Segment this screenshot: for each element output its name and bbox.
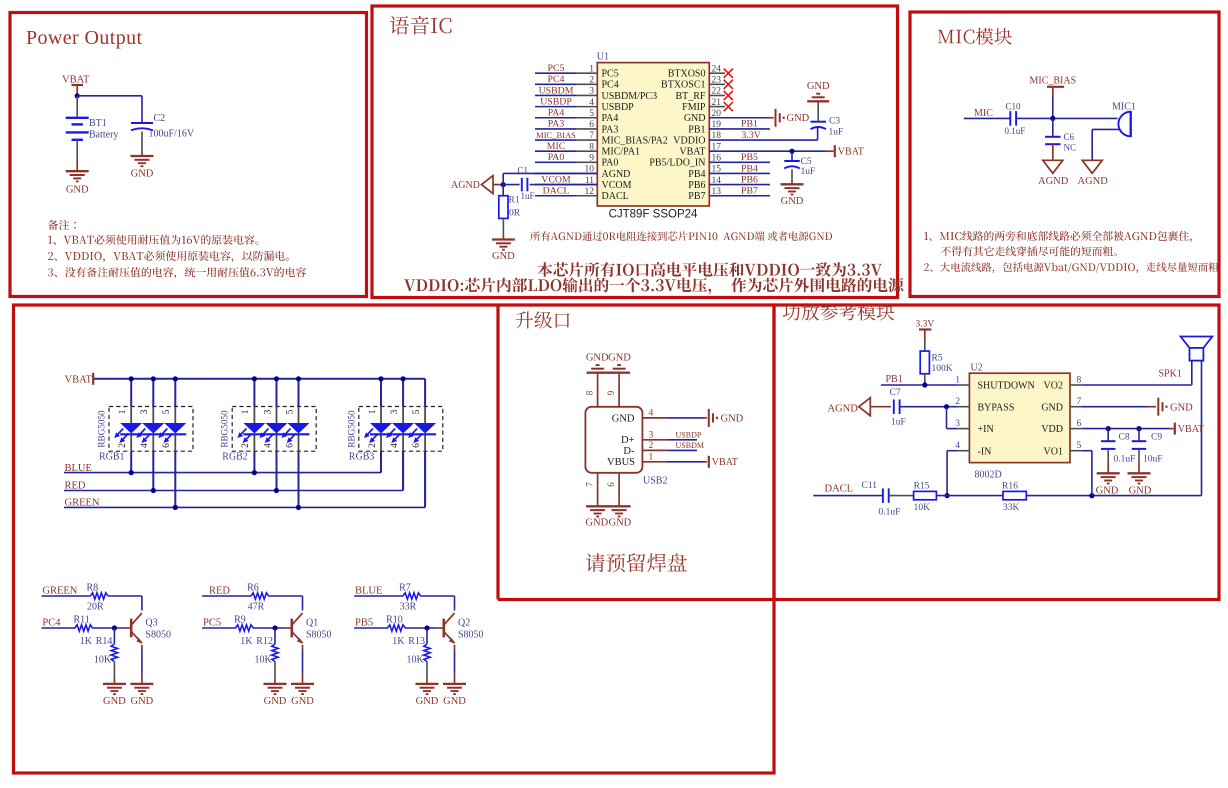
svg-text:6: 6: [589, 120, 594, 130]
svg-text:RBG5050: RBG5050: [346, 410, 356, 448]
transistor Q3 S8050: [131, 613, 171, 644]
svg-text:5: 5: [411, 409, 422, 414]
border USB block: [496, 305, 499, 600]
title Power Output: [26, 27, 143, 49]
resistor R11: [74, 615, 93, 648]
svg-text:4: 4: [389, 443, 400, 448]
svg-text:VO1: VO1: [1044, 446, 1063, 457]
svg-text:U1: U1: [597, 52, 609, 63]
svg-text:+IN: +IN: [978, 424, 994, 435]
wire RGB1 column 2: [152, 379, 154, 491]
wire C3 to GND: [817, 101, 819, 121]
svg-text:MIC/PA1: MIC/PA1: [602, 147, 641, 158]
svg-text:10K: 10K: [94, 655, 112, 666]
wire RGB2 column 3: [298, 379, 300, 508]
wire R14 to GND: [113, 662, 115, 684]
node VBAT junction pin17: [789, 149, 794, 154]
wire R13 to GND: [426, 662, 428, 684]
speaker SPK1: [1181, 337, 1213, 361]
wire C2 to GND: [141, 132, 143, 156]
svg-text:6: 6: [284, 443, 295, 448]
pin number 15 U1: [712, 165, 722, 175]
LED module RGB1 RBG5050: [97, 407, 194, 463]
svg-text:C6: C6: [1064, 132, 1075, 142]
ground under emitter Q3: [130, 684, 153, 707]
wire VBUS pin1 to VBAT: [642, 461, 707, 463]
wire VBAT to BT1: [76, 96, 78, 118]
svg-text:USBDP: USBDP: [602, 102, 635, 113]
pin numbers U2 right: [1077, 376, 1082, 452]
wire PB1 pin19: [709, 128, 770, 130]
svg-text:PC5: PC5: [548, 63, 565, 74]
ground under C9: [1128, 473, 1152, 496]
svg-text:100K: 100K: [932, 364, 953, 374]
svg-text:MIC_BIAS/PA2: MIC_BIAS/PA2: [602, 135, 668, 146]
title voice IC: [390, 16, 452, 35]
svg-text:10K: 10K: [255, 655, 273, 666]
LED RGB2 element 2: [260, 423, 288, 443]
svg-text:1: 1: [240, 409, 251, 414]
svg-text:9: 9: [606, 390, 616, 395]
svg-text:1uF: 1uF: [801, 167, 816, 177]
capacitor C1: [518, 166, 535, 202]
node RGB3 rail junction 2: [401, 376, 406, 381]
svg-text:PB1: PB1: [741, 119, 758, 130]
wire USB2 pin4 to GND bar: [642, 417, 707, 419]
svg-text:R10: R10: [386, 615, 403, 626]
node PB7: [741, 186, 758, 197]
node USBDP: [676, 431, 702, 440]
wire AGND to C7: [870, 406, 891, 408]
svg-text:10K: 10K: [407, 655, 425, 666]
ground under USB2 pin7: [585, 506, 609, 528]
wire R5 to PB1 rail: [924, 374, 926, 385]
svg-text:S8050: S8050: [306, 630, 332, 641]
wire U1 pin 4: [535, 106, 597, 108]
wire C10 to MIC1: [1016, 117, 1117, 119]
node PB5: [741, 152, 758, 163]
svg-text:GND: GND: [492, 251, 515, 262]
pin number 20 U1: [712, 109, 722, 119]
svg-text:7: 7: [589, 131, 594, 141]
svg-text:GND: GND: [131, 696, 154, 707]
op-amp U2 8002D body: [969, 363, 1070, 481]
wire U1 pin 12: [535, 195, 597, 197]
node PC4 net: [42, 617, 61, 628]
wire U1 pin 7: [535, 139, 597, 141]
svg-text:VCOM: VCOM: [602, 180, 632, 191]
svg-text:MIC: MIC: [974, 108, 993, 119]
inverted ground above C3: [807, 81, 830, 101]
pin number 7 USB2: [585, 482, 595, 487]
svg-text:3.3V: 3.3V: [742, 130, 761, 141]
node SPK1 label: [1159, 369, 1182, 380]
wire PC4 to R11: [42, 627, 76, 629]
resistor R14: [94, 628, 118, 666]
svg-text:PB6: PB6: [741, 174, 758, 185]
svg-text:GND: GND: [585, 518, 608, 529]
node RGB1 rail junction 2: [151, 376, 156, 381]
title upgrade port: [516, 311, 570, 328]
wire R1 to GND: [502, 218, 504, 239]
no-connect X pin 23: [724, 80, 733, 89]
svg-text:PA3: PA3: [548, 119, 565, 130]
power port VBAT right of U1: [835, 145, 864, 157]
svg-text:12: 12: [585, 187, 595, 197]
svg-text:7: 7: [585, 482, 595, 487]
ground AGND under MIC1: [1078, 160, 1109, 187]
wire VBAT pin17: [709, 150, 833, 152]
svg-text:R16: R16: [1002, 482, 1018, 492]
svg-text:GND: GND: [416, 696, 439, 707]
node USBDM: [676, 441, 704, 450]
microphone MIC1: [1112, 102, 1136, 137]
svg-text:Q3: Q3: [145, 617, 157, 628]
wire RED bus: [64, 451, 403, 493]
wire PB1 to U2 pin1: [881, 384, 969, 386]
note VDDIO LDO bold: [404, 278, 903, 295]
wire R15 to junction: [936, 495, 1003, 497]
node RGB2 rail junction 1: [252, 376, 257, 381]
pin number 6 USB2: [606, 482, 616, 487]
pin number 2 U1: [589, 76, 594, 86]
svg-text:PB4: PB4: [741, 163, 758, 174]
wire PB7 pin 13: [709, 195, 770, 197]
svg-text:GND: GND: [608, 353, 631, 364]
wire junction to C6: [1052, 118, 1054, 136]
pin number 19 U1: [712, 120, 722, 130]
svg-text:6: 6: [606, 482, 616, 487]
wire 3.3V pin18 to C3: [709, 128, 817, 141]
svg-text:Battery: Battery: [89, 130, 118, 141]
svg-text:2: 2: [649, 441, 654, 451]
wire R7 to collector Q2: [421, 596, 455, 611]
svg-text:USB2: USB2: [643, 476, 667, 487]
svg-text:PA0: PA0: [548, 152, 565, 163]
svg-text:GND: GND: [1041, 402, 1063, 413]
svg-text:R6: R6: [247, 583, 259, 594]
svg-text:5: 5: [589, 109, 594, 119]
svg-text:PB7: PB7: [688, 191, 705, 202]
svg-text:Q1: Q1: [306, 617, 318, 628]
pin number 22 U1: [712, 87, 722, 97]
capacitor C10: [1005, 102, 1026, 137]
wire BLUE bus: [64, 451, 381, 475]
svg-text:FMIP: FMIP: [682, 102, 706, 113]
LED RGB1 element 2: [136, 423, 164, 443]
title amplifier reference module: [783, 303, 895, 320]
capacitor C6: [1045, 132, 1076, 153]
wire BLUE to R7: [354, 595, 403, 597]
capacitor C2: [131, 113, 195, 140]
svg-text:GND: GND: [66, 185, 89, 196]
svg-text:USBDP: USBDP: [676, 431, 702, 440]
svg-text:PB4: PB4: [688, 169, 705, 180]
svg-text:RGB3: RGB3: [349, 452, 375, 463]
node RGB2 rail junction 2: [274, 376, 279, 381]
wire GREEN to R8: [42, 595, 91, 597]
resistor R5: [920, 351, 953, 374]
node MIC: [547, 141, 566, 152]
wire MIC1 to AGND: [1092, 129, 1119, 159]
wire RED to R6: [202, 595, 251, 597]
svg-text:3: 3: [139, 409, 150, 414]
border voice-IC block: [372, 6, 898, 298]
wire R16 to VO1 node: [1026, 495, 1201, 497]
ground under C5: [781, 184, 804, 207]
svg-text:C5: C5: [801, 157, 812, 167]
ground under C8: [1096, 473, 1120, 496]
svg-text:PB5: PB5: [741, 152, 758, 163]
border LED/transistor block: [14, 305, 775, 773]
node MIC_BIAS: [536, 130, 576, 140]
svg-text:BT1: BT1: [89, 118, 107, 129]
svg-text:3: 3: [955, 419, 960, 429]
wire RGB3 column 1: [380, 379, 382, 473]
node BLUE bus: [65, 463, 92, 474]
svg-text:R11: R11: [74, 615, 90, 626]
svg-text:1: 1: [117, 409, 128, 414]
node DACL: [543, 186, 570, 197]
pin number 8 U1: [589, 142, 594, 152]
connector USB2 body: [585, 407, 667, 487]
svg-text:S8050: S8050: [458, 630, 484, 641]
svg-text:VBAT: VBAT: [62, 75, 90, 86]
svg-text:VBAT: VBAT: [679, 147, 705, 158]
svg-text:5: 5: [161, 409, 172, 414]
svg-text:DACL: DACL: [825, 484, 854, 495]
svg-text:PB5: PB5: [355, 617, 373, 628]
pin number 3 U1: [589, 87, 594, 97]
svg-text:4: 4: [589, 98, 594, 108]
wire R6 to collector Q1: [269, 596, 303, 611]
wire BT1 to GND: [76, 140, 78, 171]
power port MIC_BIAS: [1030, 76, 1077, 96]
svg-text:100uF/16V: 100uF/16V: [149, 129, 195, 140]
power port VBAT amp: [1175, 423, 1204, 436]
wire U2 pin6 VDD to VBAT: [1070, 428, 1174, 430]
resistor R9: [234, 615, 253, 648]
svg-text:PA4: PA4: [602, 113, 619, 124]
pin number 4 USB2: [649, 408, 654, 418]
pin number 12 U1: [585, 187, 595, 197]
resistor R10: [386, 615, 405, 648]
svg-text:VCOM: VCOM: [541, 174, 571, 185]
node MIC junction: [1050, 116, 1055, 121]
svg-text:VBUS: VBUS: [607, 457, 635, 468]
svg-text:47R: 47R: [248, 602, 265, 613]
svg-text:AGND: AGND: [1038, 176, 1069, 187]
svg-text:PB1: PB1: [886, 374, 903, 385]
node PB1: [741, 119, 758, 130]
wire U1 pin 9: [535, 161, 597, 163]
svg-text:10K: 10K: [914, 503, 931, 513]
svg-text:CJT89F SSOP24: CJT89F SSOP24: [609, 209, 698, 221]
resistor R6: [247, 583, 269, 613]
svg-text:PC4: PC4: [602, 80, 619, 91]
ground under BT1: [66, 171, 89, 195]
svg-text:BYPASS: BYPASS: [978, 402, 1015, 413]
ground bar at pin20: [776, 109, 810, 127]
svg-text:GND: GND: [291, 696, 314, 707]
power port VBAT LED rail: [65, 373, 94, 386]
wire U1 pin20 to GND bar: [709, 117, 773, 119]
pin number 5 U1: [589, 109, 594, 119]
svg-text:GND: GND: [684, 113, 706, 124]
wire U1 pin 22 no-connect: [709, 94, 725, 96]
wire R12 to GND: [274, 662, 276, 684]
wire U1 pin 1: [535, 72, 597, 74]
transistor Q1 S8050: [292, 613, 332, 644]
svg-text:GND: GND: [131, 169, 154, 180]
svg-text:PB1: PB1: [688, 124, 705, 135]
power port VBAT: [62, 75, 90, 96]
svg-text:D-: D-: [623, 446, 635, 457]
pin number 14 U1: [712, 176, 722, 186]
wire R8 to collector Q3: [108, 596, 142, 611]
wire PB5 pin 16: [709, 161, 770, 163]
wire RGB3 column 3: [424, 379, 426, 508]
svg-text:GND: GND: [264, 696, 287, 707]
svg-text:USBDP: USBDP: [540, 96, 572, 107]
node USBDM: [539, 85, 574, 96]
svg-text:8: 8: [589, 142, 594, 152]
svg-text:R15: R15: [914, 482, 930, 492]
node PC5 net: [203, 617, 221, 628]
pin number 21 U1: [712, 98, 722, 108]
pin number 18 U1: [712, 131, 722, 141]
svg-text:C10: C10: [1006, 102, 1022, 112]
node RGB2 rail junction 3: [296, 376, 301, 381]
svg-text:D+: D+: [621, 435, 635, 446]
op-amp U1 CJT89F SSOP24 body: [597, 52, 710, 221]
svg-text:RBG5050: RBG5050: [97, 410, 107, 448]
node VDD junction C9: [1136, 426, 1141, 431]
wire GREEN bus: [64, 451, 425, 510]
wire C9 to GND: [1138, 449, 1140, 473]
svg-text:R9: R9: [234, 615, 246, 626]
pin number 7 U1: [589, 131, 594, 141]
node RGB3 rail junction 1: [378, 376, 383, 381]
svg-text:RGB1: RGB1: [99, 452, 125, 463]
pin names U1 internal: [602, 69, 706, 203]
wire RGB1 column 3: [174, 379, 176, 508]
wire PB4 pin 15: [709, 172, 770, 174]
wire MIC_BIAS down: [1052, 95, 1054, 118]
svg-text:S8050: S8050: [145, 630, 171, 641]
wire emitter Q3 to GND: [141, 645, 143, 684]
svg-text:2: 2: [367, 443, 378, 448]
wire U1 pin 5: [535, 117, 597, 119]
svg-text:USBDM: USBDM: [539, 85, 574, 96]
svg-text:USBDM/PC3: USBDM/PC3: [602, 91, 658, 102]
svg-text:3: 3: [649, 430, 654, 440]
node PB5 net: [355, 617, 373, 628]
svg-text:VBAT: VBAT: [1178, 424, 1204, 435]
svg-text:BT_RF: BT_RF: [675, 91, 705, 102]
svg-text:1K: 1K: [240, 636, 253, 647]
svg-text:VBAT: VBAT: [65, 375, 93, 386]
svg-text:3: 3: [389, 409, 400, 414]
svg-text:8002D: 8002D: [975, 470, 1002, 481]
wire C7 to U2 pin2: [900, 406, 970, 408]
svg-text:U2: U2: [970, 363, 982, 374]
svg-text:1uF: 1uF: [829, 128, 844, 138]
pin number 17 U1: [712, 142, 722, 152]
svg-text:R13: R13: [408, 636, 425, 647]
wire C11 to R15: [889, 495, 914, 497]
svg-text:R1: R1: [509, 196, 520, 206]
wire PB6 pin 14: [709, 184, 770, 186]
wire C8 to GND: [1107, 449, 1109, 473]
node RGB1 rail junction 1: [129, 376, 134, 381]
node VBAT junction: [75, 93, 80, 98]
svg-text:1K: 1K: [80, 636, 93, 647]
wire C1 to pin11: [530, 184, 598, 186]
note AGND routing: [530, 231, 832, 241]
svg-text:5: 5: [284, 409, 295, 414]
svg-text:7: 7: [1077, 397, 1082, 407]
svg-text:1K: 1K: [392, 636, 405, 647]
node MIC: [974, 108, 993, 119]
svg-text:R12: R12: [256, 636, 273, 647]
pin number 24 U1: [712, 64, 722, 74]
wire USB2 pin9 to GND: [618, 373, 620, 407]
power port AGND amp: [828, 398, 871, 416]
svg-text:GND: GND: [1129, 486, 1152, 497]
svg-text:C3: C3: [829, 117, 840, 127]
svg-text:MIC: MIC: [547, 141, 566, 152]
wire VDD to C8: [1107, 429, 1109, 442]
resistor R13: [407, 628, 431, 666]
wire USBDP pin3: [642, 439, 697, 441]
wire emitter Q1 to GND: [302, 645, 304, 684]
node GREEN bus: [65, 498, 100, 509]
node PC4: [548, 74, 565, 85]
node base junction Q1: [272, 625, 277, 630]
node base junction Q2: [424, 625, 429, 630]
capacitor C7: [890, 388, 906, 428]
pin number 11 U1: [585, 176, 594, 186]
svg-text:22: 22: [712, 87, 722, 97]
wire U2 pin7 to GND bar: [1070, 406, 1156, 408]
svg-text:GND: GND: [1170, 402, 1193, 413]
svg-text:PB5/LDO_IN: PB5/LDO_IN: [649, 158, 705, 169]
wire U1 pin 23 no-connect: [709, 83, 725, 85]
node RED net: [209, 586, 230, 597]
LED RGB3 element 1: [364, 423, 392, 443]
svg-text:RGB2: RGB2: [222, 452, 248, 463]
pin number 9 USB2: [606, 390, 616, 395]
pin names USB2 internal: [607, 413, 635, 468]
pin number 3 USB2: [649, 430, 654, 440]
wire VBAT LED rail: [94, 378, 425, 380]
wire U1 pin 2: [535, 83, 597, 85]
svg-text:Q2: Q2: [458, 617, 470, 628]
ground under R14: [103, 684, 126, 707]
node base junction Q3: [112, 625, 117, 630]
ground AGND under C6: [1038, 160, 1069, 187]
wire USB2 pin8 to GND: [597, 373, 599, 407]
wire R11 to base Q3: [92, 627, 131, 629]
wire USB2 pin7 to GND: [597, 473, 599, 506]
border Power Output block: [10, 13, 367, 297]
svg-text:NC: NC: [1064, 143, 1077, 153]
svg-text:PA3: PA3: [602, 124, 619, 135]
svg-text:3: 3: [262, 409, 273, 414]
svg-text:1uF: 1uF: [891, 418, 906, 428]
pin number 1 U1: [589, 64, 594, 74]
